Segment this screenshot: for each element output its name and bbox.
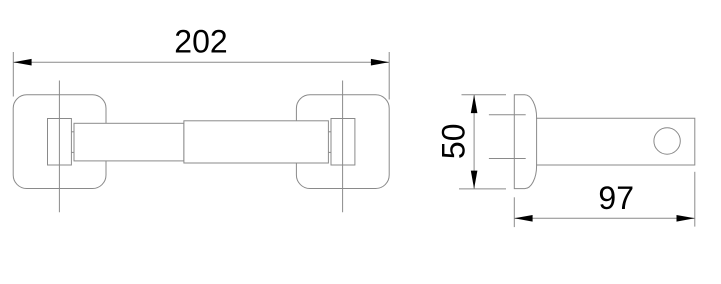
- dim 50 arrow bottom: [471, 171, 478, 189]
- left neck: [71, 131, 74, 133]
- right centerline: [342, 81, 344, 213]
- dim 50 arrow top: [471, 95, 478, 113]
- side view arm: [536, 118, 695, 165]
- dim 202 arrow left: [13, 59, 31, 66]
- dim 202 arrow right: [371, 59, 389, 66]
- dim 97 arrow right: [677, 215, 695, 222]
- dim 202 extension line left: [12, 52, 14, 97]
- dim 202 extension line right: [388, 52, 390, 100]
- right neck: [329, 131, 331, 133]
- dim 50 extension line bottom: [459, 188, 506, 190]
- side view cap: [514, 95, 536, 189]
- right post: [331, 119, 355, 166]
- left centerline: [58, 81, 60, 213]
- side view inner line top: [489, 114, 526, 116]
- dim 50 line: [473, 95, 475, 189]
- dim 97 arrow left: [514, 215, 532, 222]
- side view hole: [654, 128, 680, 154]
- bar right segment: [184, 121, 329, 163]
- svg-text:50: 50: [436, 124, 472, 160]
- left post: [48, 119, 72, 166]
- dim 97 line: [514, 217, 695, 219]
- dim 97 extension line left: [513, 197, 515, 227]
- side view inner line bottom: [489, 158, 526, 160]
- svg-text:202: 202: [174, 24, 227, 60]
- right mounting plate: [296, 95, 389, 189]
- bar left segment: [74, 123, 184, 161]
- left mounting plate: [13, 95, 106, 189]
- svg-text:97: 97: [598, 180, 634, 216]
- dim 97 extension line right: [694, 172, 696, 227]
- dim 202 line: [13, 61, 389, 63]
- dim 50 extension line top: [462, 94, 507, 96]
